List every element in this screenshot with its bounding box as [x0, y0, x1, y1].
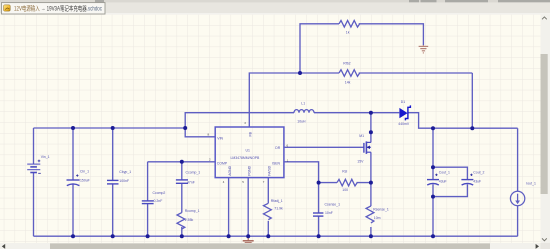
- capacitor Ccomp2: [142, 201, 154, 204]
- svg-text:Rcomp_1: Rcomp_1: [185, 209, 200, 213]
- wire MOSFET drain: [370, 113, 372, 143]
- svg-text:FA/SD: FA/SD: [268, 165, 272, 175]
- svg-text:Rsense_1: Rsense_1: [373, 207, 389, 211]
- svg-text:M1: M1: [359, 134, 364, 138]
- svg-text:Rfb2: Rfb2: [343, 61, 350, 65]
- wire Cbyp branch: [112, 128, 114, 236]
- wire DR gate: [284, 146, 364, 148]
- resistor 1k (top): [339, 21, 360, 28]
- junction COMP node: [180, 160, 184, 164]
- svg-text:Cbyp_1: Cbyp_1: [119, 170, 131, 174]
- wire AGND: [228, 178, 230, 237]
- svg-text:440mV: 440mV: [398, 122, 410, 126]
- wire to inductor: [185, 113, 399, 128]
- resistor Rsl: [337, 179, 357, 186]
- svg-text:47nF: 47nF: [187, 181, 195, 185]
- junction gnd Rcomp: [180, 234, 184, 238]
- svg-text:Ccomp_1: Ccomp_1: [186, 170, 201, 174]
- junction drain top: [369, 111, 373, 115]
- svg-text:U1: U1: [246, 148, 250, 152]
- diode D1 schottky: [399, 108, 407, 118]
- wire FB net: [249, 73, 472, 127]
- junction Cout2 bottom: [431, 195, 435, 199]
- junction drain pin: [369, 130, 373, 134]
- svg-text:Vin_1: Vin_1: [41, 155, 50, 159]
- svg-text:PGND: PGND: [247, 165, 251, 175]
- junction gnd AGND: [227, 234, 231, 238]
- resistor Rsense_1: [366, 206, 374, 223]
- svg-text:DR: DR: [275, 146, 280, 150]
- battery Vin_1: [27, 164, 40, 172]
- svg-text:15V: 15V: [357, 159, 364, 163]
- current source Iout_1: [510, 191, 524, 205]
- plus mark Cout_2: [470, 174, 472, 176]
- horizontal scrollbar: [0, 243, 550, 249]
- junction gnd Rsense: [369, 234, 373, 238]
- resistor Rcomp_1: [177, 213, 185, 229]
- svg-text:Cout_1: Cout_1: [439, 170, 450, 174]
- junction gnd Csense: [317, 234, 321, 238]
- ground top right (power gnd): [419, 45, 429, 53]
- svg-text:LM3478MM/NOPB: LM3478MM/NOPB: [231, 156, 261, 160]
- junction ISEN node: [317, 181, 321, 185]
- wire battery top: [33, 128, 35, 164]
- svg-text:ISEN: ISEN: [272, 161, 281, 165]
- transistor M1 arrow: [367, 146, 370, 150]
- svg-text:Rsl: Rsl: [342, 170, 347, 174]
- wire current source: [517, 128, 519, 236]
- wire Csense branch: [318, 183, 320, 237]
- svg-text:12V电源输入 → 19V3A笔记本充电器.schdoc: 12V电源输入 → 19V3A笔记本充电器.schdoc: [14, 3, 103, 12]
- capacitor Csense_1: [313, 213, 323, 216]
- junction Cbyp top: [111, 126, 115, 130]
- svg-text:2.55k: 2.55k: [185, 218, 194, 222]
- plus mark Cout_1: [435, 174, 437, 176]
- junction Cout2 top: [431, 165, 435, 169]
- junction gnd Rfadj: [266, 234, 270, 238]
- svg-text:VIN: VIN: [217, 136, 223, 140]
- junction gnd Ccomp2: [146, 234, 150, 238]
- capacitor Ccomp_1: [176, 180, 188, 183]
- transistor M1 nmos: [364, 141, 371, 154]
- capacitor Cin_1: [67, 180, 80, 186]
- wire top 1k net: [300, 24, 423, 73]
- vertical scrollbar: [541, 14, 550, 243]
- wire Rsl ends: [319, 182, 371, 184]
- plus mark Cin: [76, 174, 78, 176]
- ground bottom (power gnd): [243, 236, 254, 245]
- wire bottom ground rail: [34, 235, 518, 237]
- svg-text:71.9k: 71.9k: [274, 206, 283, 210]
- svg-text:Iout_1: Iout_1: [526, 181, 536, 185]
- svg-text:L1: L1: [301, 101, 305, 105]
- wire left top rail: [34, 127, 186, 129]
- wire Cin branch: [72, 128, 74, 236]
- inductor L1: [294, 110, 314, 113]
- capacitor Cbyp_1: [107, 180, 119, 184]
- svg-text:100nF: 100nF: [119, 179, 129, 183]
- svg-text:Cin_1: Cin_1: [80, 169, 89, 173]
- capacitor Cout_2: [461, 180, 473, 185]
- junction source sense: [369, 181, 373, 185]
- resistor Rfadj_1: [264, 203, 272, 219]
- wire PGND: [247, 178, 249, 237]
- svg-text:AGND: AGND: [228, 165, 232, 175]
- junction Cin top: [71, 126, 75, 130]
- svg-text:Rfadj_1: Rfadj_1: [271, 199, 283, 203]
- junction VIN branch: [183, 126, 187, 130]
- op-amp ic U1 LM3478 box: [215, 127, 284, 178]
- wire Ccomp1 Rcomp branch: [181, 162, 183, 236]
- active tab: [2, 3, 106, 14]
- svg-text:Cout_2: Cout_2: [473, 170, 484, 174]
- svg-text:D1: D1: [401, 100, 405, 104]
- wire Cout branch: [432, 128, 434, 236]
- wire feedback drop: [471, 73, 473, 128]
- wire Cout2 loop: [433, 167, 467, 196]
- svg-text:10uH: 10uH: [297, 119, 306, 123]
- svg-text:Ccomp2: Ccomp2: [153, 191, 166, 195]
- svg-text:43uF: 43uF: [473, 179, 481, 183]
- wire battery bottom: [33, 173, 35, 237]
- wire diode to output: [408, 113, 517, 129]
- tab bar: [0, 0, 550, 14]
- junction gnd Cin: [71, 234, 75, 238]
- junction output rail feedback: [470, 126, 474, 130]
- resistor Rfb2: [339, 70, 360, 77]
- junction feedback divider: [298, 71, 302, 75]
- svg-text:150uF: 150uF: [80, 178, 90, 182]
- wire Ccomp2 branch: [147, 162, 149, 236]
- capacitor Cout_1: [427, 180, 439, 185]
- svg-text:0.2nF: 0.2nF: [154, 199, 163, 203]
- wire VIN pin: [185, 128, 215, 137]
- junction gnd Cbyp: [111, 234, 115, 238]
- svg-text:10nF: 10nF: [325, 211, 333, 215]
- wire ISEN: [284, 162, 319, 183]
- wire FA/SD: [267, 178, 269, 237]
- battery polarity marks: [38, 160, 41, 174]
- wire COMP net: [148, 161, 216, 163]
- svg-text:1k: 1k: [346, 30, 350, 34]
- svg-text:43uF: 43uF: [439, 179, 447, 183]
- wire source to Rsense: [370, 152, 372, 236]
- svg-text:100: 100: [342, 188, 348, 192]
- junction gnd PGND: [246, 234, 250, 238]
- junction gnd Cout: [431, 234, 435, 238]
- svg-text:14k: 14k: [345, 80, 351, 84]
- junction output rail Cout: [431, 126, 435, 130]
- svg-text:10m: 10m: [374, 216, 381, 220]
- svg-text:COMP: COMP: [217, 161, 228, 165]
- svg-text:FB: FB: [249, 131, 253, 136]
- svg-text:Csense_1: Csense_1: [325, 202, 341, 206]
